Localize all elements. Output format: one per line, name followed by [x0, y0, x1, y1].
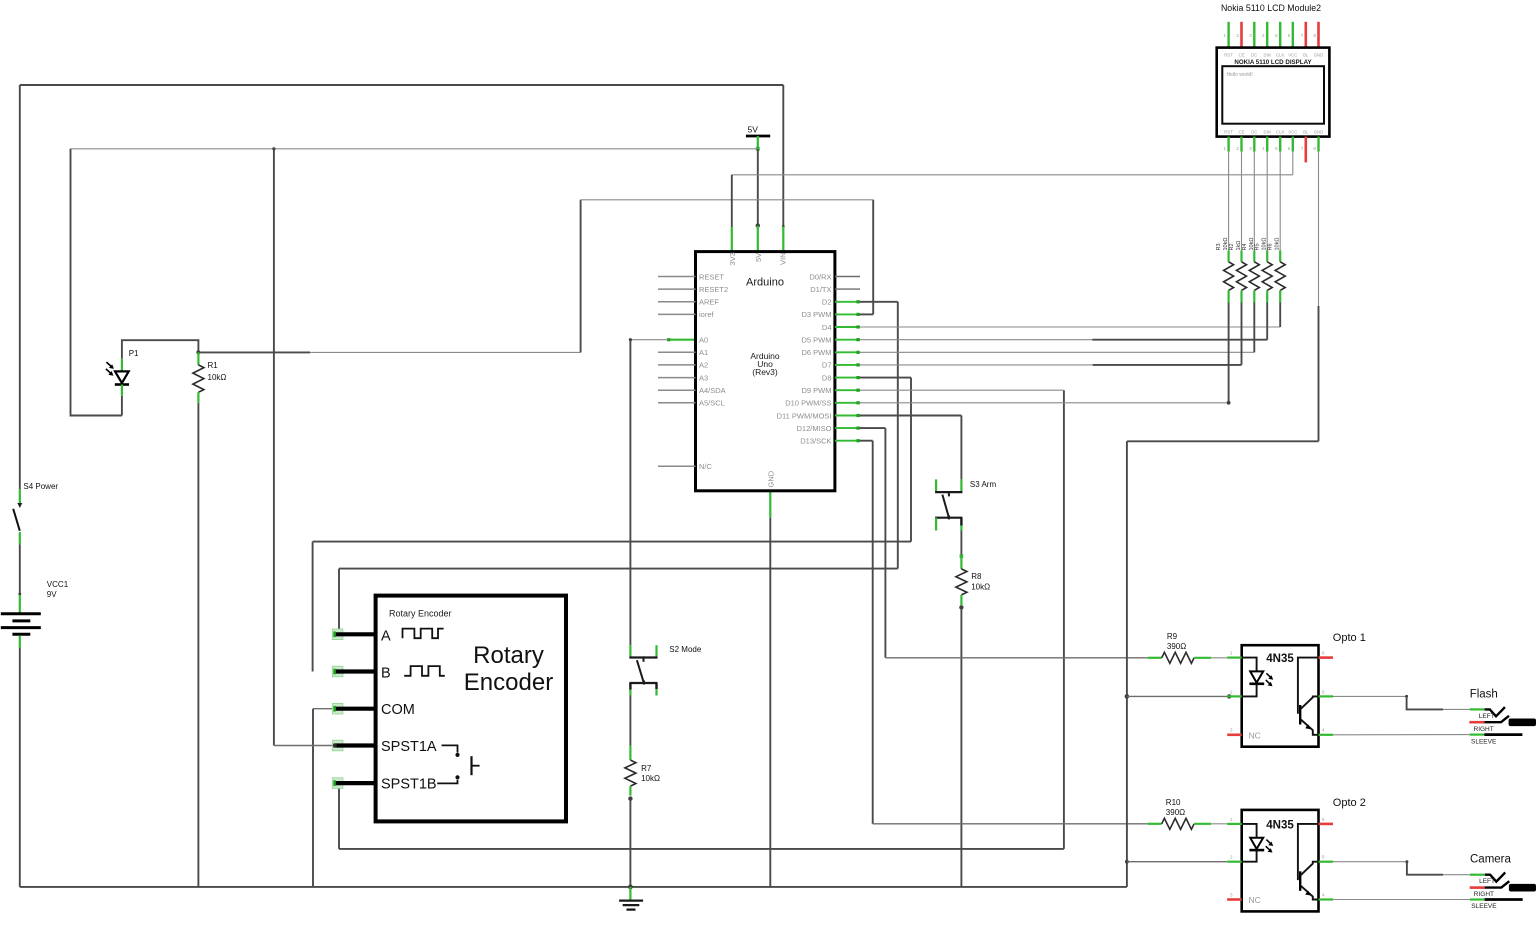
wire D11 drop to S3	[960, 416, 962, 480]
wire D12 drop	[884, 428, 886, 658]
wire D3 top horizontal	[581, 199, 874, 201]
svg-text:D4: D4	[822, 323, 832, 332]
svg-text:BL: BL	[1303, 130, 1309, 135]
wire D12 to R9	[885, 657, 1147, 659]
wire D3 riser vertical	[580, 200, 582, 353]
svg-text:5V: 5V	[754, 253, 763, 262]
connector Flash jack	[1469, 689, 1536, 746]
svg-text:R9: R9	[1167, 632, 1178, 641]
svg-text:RIGHT: RIGHT	[1474, 891, 1494, 898]
wire 5V pin stub green	[757, 226, 759, 252]
svg-text:D10 PWM/SS: D10 PWM/SS	[785, 399, 831, 408]
svg-text:R2: R2	[1229, 243, 1235, 250]
svg-text:D8: D8	[822, 373, 832, 382]
encoder pad COM	[332, 703, 375, 714]
wire Arduino GND drop to rail	[769, 518, 771, 887]
wire LCD GND drop lower	[1318, 306, 1320, 441]
svg-text:R5: R5	[1255, 243, 1261, 250]
wire D3 drop to pin	[872, 200, 874, 315]
wire D8 link	[859, 377, 912, 379]
wire encoder B riser	[312, 542, 314, 672]
wire R10 to opto2	[1211, 823, 1227, 825]
wire battery negative lead	[19, 636, 21, 648]
svg-text:R3: R3	[1216, 243, 1222, 250]
Arduino right pin labels	[777, 272, 832, 445]
wire P1 cathode lead	[121, 396, 123, 416]
Arduino left pin stubs	[658, 277, 696, 467]
svg-text:Opto 1: Opto 1	[1333, 632, 1366, 644]
svg-text:Hello world!: Hello world!	[1227, 72, 1253, 78]
svg-text:Arduino: Arduino	[746, 277, 784, 289]
opto1 pin6 stub NC	[1319, 656, 1334, 659]
svg-text:3V3: 3V3	[728, 252, 737, 265]
svg-text:LEFT: LEFT	[1479, 878, 1495, 885]
ground symbol	[619, 887, 643, 910]
opto2 pin1 stub	[1227, 823, 1242, 825]
wire R2 drop	[1241, 303, 1243, 365]
wire SPST1B drop	[338, 783, 340, 849]
svg-text:D5 PWM: D5 PWM	[802, 336, 832, 345]
svg-text:P1: P1	[129, 349, 139, 358]
svg-text:B: B	[381, 666, 391, 682]
wire D12 link	[859, 427, 886, 429]
opto2 pin5 stub	[1319, 861, 1334, 863]
wire D9 drop	[1063, 390, 1065, 849]
svg-text:DC: DC	[1251, 53, 1257, 58]
wire opto1 emitter to Flash SLEEVE	[1333, 734, 1470, 736]
opto1 pin4 stub	[1319, 734, 1334, 736]
opto2 pin2 stub	[1227, 861, 1242, 863]
svg-text:R8: R8	[971, 572, 982, 581]
svg-text:NOKIA 5110 LCD DISPLAY: NOKIA 5110 LCD DISPLAY	[1234, 59, 1312, 66]
node VIN bendpoint	[782, 225, 785, 228]
node ground junction	[628, 885, 633, 890]
svg-text:S4 Power: S4 Power	[23, 482, 58, 491]
node R8 bottom junction	[959, 605, 963, 609]
svg-text:RESET2: RESET2	[699, 285, 728, 294]
svg-text:SLEEVE: SLEEVE	[1471, 738, 1497, 745]
wire D4 row to R6	[859, 326, 1281, 328]
wire VIN pin stub green	[782, 226, 784, 251]
svg-text:A: A	[381, 628, 391, 644]
svg-text:SPST1A: SPST1A	[381, 739, 437, 755]
svg-text:D7: D7	[822, 361, 832, 370]
wire encoder COM drop to ground	[312, 709, 314, 887]
svg-text:RIGHT: RIGHT	[1474, 726, 1494, 733]
wire D13 link	[859, 440, 873, 442]
svg-text:VCC1: VCC1	[47, 580, 69, 589]
svg-text:D1/TX: D1/TX	[810, 285, 831, 294]
wire D7 dark overlay	[1093, 364, 1242, 366]
svg-text:R4: R4	[1242, 243, 1248, 250]
Arduino Uno U1	[696, 252, 835, 491]
wire D6 row to R4	[859, 351, 1255, 353]
svg-text:D11 PWM/MOSI: D11 PWM/MOSI	[777, 411, 832, 420]
svg-text:A1: A1	[699, 348, 708, 357]
arduino pin end ticks	[856, 300, 859, 442]
svg-text:RST: RST	[1224, 130, 1233, 135]
svg-text:ioref: ioref	[699, 310, 715, 319]
svg-text:NC: NC	[1249, 731, 1261, 741]
wire R3 drop	[1228, 303, 1230, 403]
svg-text:A3: A3	[699, 373, 708, 382]
encoder pad SPST1A	[332, 740, 375, 751]
svg-text:D3 PWM: D3 PWM	[802, 310, 832, 319]
wire D5 row to R5	[859, 339, 1268, 341]
encoder pad B	[332, 666, 375, 677]
svg-text:10kΩ: 10kΩ	[1275, 238, 1281, 251]
wire D8 drop	[910, 378, 912, 542]
resistor R6 10k	[1268, 238, 1286, 303]
svg-text:4N35: 4N35	[1266, 653, 1294, 665]
wire D3 pin link	[859, 313, 874, 315]
wire S2 to R7	[629, 696, 631, 746]
switch S2 Mode	[629, 645, 701, 696]
svg-text:DIN: DIN	[1263, 130, 1270, 135]
resistor R7 10k	[625, 746, 660, 796]
switch S4 Power	[13, 482, 58, 545]
wire opto2 cathode to GND riser	[1127, 861, 1227, 863]
opto1 pin5 stub	[1319, 695, 1334, 697]
wire opto1 collector to Flash LEFT	[1333, 695, 1407, 697]
wire 5V vertical to Arduino	[757, 149, 759, 226]
svg-text:DIN: DIN	[1263, 53, 1270, 58]
wire 3V3 pin stub green	[731, 227, 733, 252]
connector Camera jack	[1470, 854, 1536, 911]
resistor R8 10k	[956, 556, 990, 605]
wire SPST1A riser from 5V rail	[273, 149, 275, 746]
svg-text:SLEEVE: SLEEVE	[1471, 903, 1497, 910]
wire VIN top rail	[20, 84, 784, 86]
wire D9 row	[859, 389, 1064, 391]
svg-text:Opto 2: Opto 2	[1333, 797, 1366, 809]
svg-text:S3 Arm: S3 Arm	[970, 480, 997, 489]
wire LCD DIN drop	[1266, 152, 1268, 251]
svg-text:SPST1B: SPST1B	[381, 777, 437, 793]
wire D5 dark overlay	[1092, 339, 1267, 341]
resistor R2 1k	[1229, 241, 1247, 303]
wire D2 to encoder A	[339, 568, 898, 570]
svg-text:D6 PWM: D6 PWM	[802, 348, 832, 357]
svg-text:D2: D2	[822, 298, 832, 307]
wire 5V rail left drop	[71, 149, 122, 416]
wire VIN left drop to S4	[19, 85, 21, 489]
svg-text:RESET: RESET	[699, 272, 724, 281]
resistor R10 390	[1148, 798, 1211, 829]
node 5V bendpoint	[756, 223, 760, 227]
svg-text:VCC: VCC	[1288, 130, 1297, 135]
wire D10 row to R3	[859, 402, 1229, 404]
wire encoder COM link	[313, 708, 333, 710]
svg-text:D0/RX: D0/RX	[809, 272, 831, 281]
wire R5 drop	[1266, 303, 1268, 340]
svg-text:A0: A0	[699, 336, 708, 345]
battery VCC1 9V	[1, 580, 69, 634]
wire P1 anode to R1	[122, 340, 198, 359]
wire R7 to ground	[629, 799, 631, 887]
svg-text:R1: R1	[208, 361, 219, 370]
wire junction to D3 riser	[198, 351, 580, 353]
power symbol 5V	[746, 125, 770, 151]
svg-text:R10: R10	[1166, 798, 1181, 807]
svg-text:NC: NC	[1249, 895, 1261, 905]
node junction R1/P1/D3	[196, 350, 200, 354]
svg-text:CLK: CLK	[1276, 53, 1284, 58]
svg-text:GND: GND	[1314, 53, 1324, 58]
svg-text:VCC: VCC	[1288, 53, 1297, 58]
wire D2 drop	[897, 302, 899, 569]
svg-text:GND: GND	[766, 470, 775, 487]
wire D2 link	[859, 301, 898, 303]
svg-text:Flash: Flash	[1470, 689, 1498, 701]
wire opto2 collector to Camera LEFT	[1333, 861, 1407, 863]
resistor R3 10k	[1216, 238, 1234, 303]
wire SPST1A link	[274, 745, 333, 747]
wire ground rail left drop	[19, 648, 21, 887]
svg-text:BL: BL	[1303, 53, 1309, 58]
svg-text:Camera: Camera	[1470, 854, 1512, 866]
wire A0 pin stub green	[669, 339, 696, 341]
svg-text:4N35: 4N35	[1266, 819, 1294, 831]
svg-text:390Ω: 390Ω	[1166, 808, 1185, 817]
wire opto2 emitter to Camera SLEEVE	[1333, 899, 1470, 901]
svg-text:VIN: VIN	[779, 252, 788, 265]
node GND riser / opto2 junction	[1125, 860, 1129, 864]
opto2 pin4 stub	[1319, 898, 1334, 900]
wire R6 drop	[1279, 303, 1281, 328]
svg-text:N/C: N/C	[699, 462, 713, 471]
svg-text:CLK: CLK	[1276, 130, 1284, 135]
wire 3V3 drop	[731, 175, 733, 227]
resistor R5 10k	[1255, 238, 1273, 303]
svg-text:CE: CE	[1239, 53, 1245, 58]
wire LCD GND drop upper	[1318, 152, 1320, 307]
wire LCD DC drop	[1253, 152, 1255, 251]
wire encoder A riser	[338, 569, 340, 635]
svg-text:5V: 5V	[748, 125, 759, 135]
wire R8 to ground rail	[960, 607, 962, 887]
Arduino left pin labels	[699, 272, 728, 471]
svg-text:GND: GND	[1314, 130, 1324, 135]
wire R4 drop	[1253, 303, 1255, 353]
wire D13 drop	[872, 441, 874, 824]
svg-text:9V: 9V	[47, 590, 57, 599]
wire ground rail	[20, 886, 1127, 888]
wire LCD CLK drop	[1279, 152, 1281, 251]
svg-text:Encoder: Encoder	[464, 669, 553, 696]
svg-text:D12/MISO: D12/MISO	[796, 424, 831, 433]
node GND riser / opto1 junction	[1125, 694, 1130, 699]
wire D11 link to S3	[859, 415, 962, 417]
node opto1 cathode bend	[1227, 694, 1231, 698]
svg-text:D13/SCK: D13/SCK	[800, 437, 831, 446]
svg-text:10kΩ: 10kΩ	[971, 583, 990, 592]
wire R1 bottom to ground rail	[197, 403, 199, 887]
svg-text:S2 Mode: S2 Mode	[669, 645, 702, 654]
wire LCD CE drop	[1241, 152, 1243, 251]
opto1 pin1 stub	[1227, 656, 1242, 658]
wire VIN vertical to Arduino	[782, 85, 784, 226]
wire GND riser right	[1126, 441, 1128, 887]
resistor R9 390	[1148, 632, 1211, 663]
svg-text:RST: RST	[1224, 53, 1233, 58]
svg-text:A4/SDA: A4/SDA	[699, 386, 726, 395]
wire S3 to R8	[960, 531, 962, 557]
Nokia 5110 LCD module	[1217, 3, 1330, 162]
resistor R1 10k	[193, 352, 226, 402]
wire D8 to encoder B	[313, 541, 911, 543]
opto2 pin3 stub NC	[1227, 898, 1242, 901]
svg-text:AREF: AREF	[699, 298, 719, 307]
svg-text:10kΩ: 10kΩ	[208, 373, 227, 382]
wire A0 to S2	[630, 339, 668, 341]
svg-text:A2: A2	[699, 361, 708, 370]
svg-text:Nokia 5110 LCD Module2: Nokia 5110 LCD Module2	[1221, 3, 1321, 13]
svg-text:Rotary: Rotary	[473, 642, 544, 669]
wire SPST1B to D9	[339, 848, 1064, 850]
svg-text:DC: DC	[1251, 130, 1257, 135]
encoder pad SPST1B	[332, 778, 375, 789]
svg-text:R6: R6	[1268, 243, 1274, 250]
svg-text:D9 PWM: D9 PWM	[802, 386, 832, 395]
resistor R4 10k	[1242, 238, 1260, 303]
wire R9 to opto1	[1211, 657, 1227, 659]
node D10/R3 corner	[1227, 401, 1231, 405]
node R7 bottom junction	[628, 796, 632, 800]
svg-text:10kΩ: 10kΩ	[641, 774, 660, 783]
svg-text:390Ω: 390Ω	[1167, 642, 1186, 651]
svg-text:LEFT: LEFT	[1479, 713, 1495, 720]
svg-text:(Rev3): (Rev3)	[752, 367, 778, 377]
opto2 pin6 stub NC	[1319, 823, 1334, 826]
encoder pad A	[332, 629, 375, 640]
switch S3 Arm	[935, 479, 996, 530]
wire LCD VCC riser	[1292, 152, 1294, 175]
wire Arduino GND stub	[769, 491, 771, 518]
optocoupler U2 Opto 1 4N35	[1230, 632, 1366, 747]
wire S4 to battery	[19, 545, 21, 596]
wire GND top horizontal	[1127, 440, 1319, 442]
opto1 pin2 stub	[1227, 695, 1242, 697]
wire LCD RST drop	[1228, 152, 1230, 251]
wire 5V rail horizontal	[71, 148, 758, 150]
opto1 pin3 stub NC	[1227, 733, 1242, 736]
svg-text:A5/SCL: A5/SCL	[699, 399, 725, 408]
photodiode P1	[106, 349, 139, 396]
wire dark overlay near R1	[198, 351, 310, 353]
node junction 5V rail / SPST1A	[272, 147, 275, 150]
wire D13 to R10	[873, 823, 1148, 825]
svg-text:Rotary Encoder: Rotary Encoder	[389, 609, 452, 619]
optocoupler U3 Opto 2 4N35	[1230, 797, 1366, 911]
wire D7 row to R2	[859, 364, 1242, 366]
wire A0 drop to S2	[629, 340, 631, 646]
svg-text:CE: CE	[1239, 130, 1245, 135]
wire opto1 cathode to GND riser	[1127, 695, 1227, 697]
svg-text:R7: R7	[641, 764, 652, 773]
Rotary Encoder module	[376, 596, 566, 822]
Arduino right green pin stubs D2-D13	[835, 302, 859, 441]
wire 3V3 to LCD VCC	[732, 174, 1293, 176]
Arduino D0 D1 stubs	[835, 276, 860, 278]
svg-text:COM: COM	[381, 702, 415, 718]
